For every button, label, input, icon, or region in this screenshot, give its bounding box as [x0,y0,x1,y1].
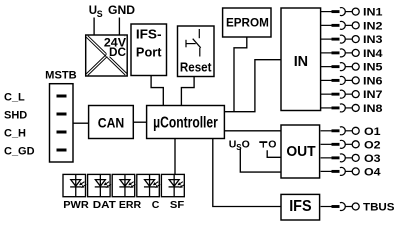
svg-text:DAT: DAT [93,199,117,211]
svg-text:IN7: IN7 [363,89,383,101]
svg-text:O1: O1 [364,126,381,138]
svg-text:Reset: Reset [180,60,212,74]
svg-text:CAN: CAN [98,115,125,131]
svg-text:µController: µController [153,115,218,132]
svg-text:IFS: IFS [289,198,311,215]
svg-text:SHD: SHD [4,110,27,122]
svg-text:IN4: IN4 [363,48,383,60]
svg-text:U: U [229,139,237,151]
svg-text:IN: IN [294,54,308,70]
svg-text:IN1: IN1 [363,7,383,19]
svg-text:IN5: IN5 [363,62,383,74]
svg-text:OUT: OUT [286,144,315,160]
svg-text:ERR: ERR [119,199,142,211]
svg-text:EPROM: EPROM [226,17,269,30]
svg-text:MSTB: MSTB [45,69,77,81]
svg-text:C_GD: C_GD [4,146,35,158]
svg-text:O2: O2 [364,139,381,151]
svg-text:GND: GND [108,5,135,17]
svg-text:IN6: IN6 [363,75,383,87]
svg-text:IFS-: IFS- [136,28,162,42]
svg-text:PWR: PWR [63,199,89,211]
svg-text:Port: Port [136,45,162,59]
svg-text:IN3: IN3 [363,34,383,46]
svg-text:C_H: C_H [4,128,26,140]
svg-text:O: O [268,139,276,151]
svg-text:C_L: C_L [4,92,25,104]
svg-text:S: S [97,9,103,19]
svg-text:SF: SF [170,199,185,211]
svg-text:O3: O3 [364,153,381,165]
svg-text:O4: O4 [364,166,382,178]
svg-text:TBUS: TBUS [363,202,395,214]
svg-text:IN2: IN2 [363,20,383,32]
svg-text:DC: DC [109,45,126,59]
svg-text:IN8: IN8 [363,103,383,115]
svg-text:O: O [242,139,250,151]
svg-text:C: C [152,199,160,211]
